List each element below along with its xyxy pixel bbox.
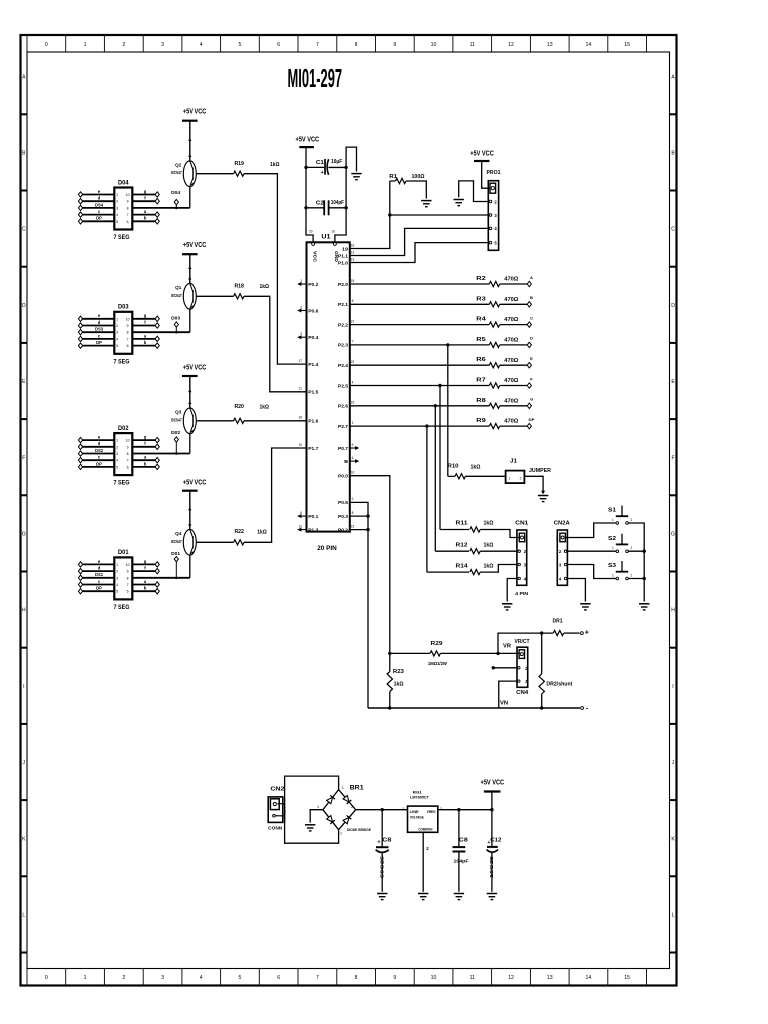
svg-text:BC547: BC547 bbox=[171, 293, 182, 298]
U1 pin VCC bbox=[312, 243, 315, 246]
transistor Q3 BC547 bbox=[183, 408, 196, 434]
svg-text:F: F bbox=[671, 455, 674, 461]
regulator RG1 LM7805CT bbox=[408, 806, 438, 832]
svg-text:104pF: 104pF bbox=[331, 200, 345, 206]
svg-text:1kΩ: 1kΩ bbox=[484, 563, 494, 569]
terminal - (VN) bbox=[581, 707, 584, 710]
svg-text:1: 1 bbox=[116, 317, 118, 321]
svg-text:1: 1 bbox=[403, 807, 405, 811]
svg-text:P2.1: P2.1 bbox=[338, 302, 348, 308]
svg-text:+5V VCC: +5V VCC bbox=[296, 137, 320, 144]
svg-text:2: 2 bbox=[520, 476, 522, 480]
CN1 pin 2 bbox=[518, 550, 520, 552]
ground (C8) bbox=[377, 893, 387, 895]
wire D03 pin 1 bbox=[81, 318, 115, 320]
wire base of Q3 to R20 bbox=[196, 420, 233, 422]
svg-text:D: D bbox=[530, 336, 533, 341]
wire D01 pin 6 bbox=[132, 590, 157, 592]
wire regulator common pin 2 bbox=[422, 832, 424, 892]
svg-text:2: 2 bbox=[116, 200, 118, 204]
svg-text:10: 10 bbox=[126, 193, 130, 197]
junction R1/pin19/PRO1.3 bbox=[388, 213, 391, 216]
svg-text:4: 4 bbox=[317, 805, 319, 809]
svg-text:8: 8 bbox=[127, 206, 129, 210]
wire J1 to ground bbox=[524, 476, 543, 491]
wire D01 pin 5 bbox=[81, 590, 115, 592]
ground (R1) bbox=[421, 200, 431, 202]
svg-text:d: d bbox=[98, 196, 101, 201]
terminal D03.b bbox=[155, 343, 159, 348]
svg-text:VN: VN bbox=[500, 700, 508, 706]
svg-text:D: D bbox=[22, 303, 26, 309]
svg-text:19: 19 bbox=[342, 246, 348, 252]
svg-text:R29: R29 bbox=[431, 641, 444, 647]
svg-text:G: G bbox=[671, 532, 675, 538]
svg-text:8: 8 bbox=[352, 511, 354, 515]
terminal F bbox=[527, 383, 531, 388]
wire U1.P2.7 to R9 bbox=[350, 425, 490, 427]
svg-text:12: 12 bbox=[508, 42, 514, 48]
wire R3 to terminal B bbox=[500, 303, 527, 305]
svg-text:104pF: 104pF bbox=[454, 859, 469, 865]
terminal D04.c bbox=[78, 212, 82, 217]
svg-text:100Ω: 100Ω bbox=[412, 174, 425, 180]
collector wire arrows bbox=[188, 389, 191, 392]
svg-text:470Ω: 470Ω bbox=[504, 398, 518, 404]
svg-text:RG1: RG1 bbox=[413, 789, 423, 794]
svg-text:+5V VCC: +5V VCC bbox=[481, 779, 505, 786]
wire U1.P2.0 to R2 bbox=[350, 283, 490, 285]
svg-text:P1.4: P1.4 bbox=[308, 362, 318, 368]
wire D04 pin 2 bbox=[81, 200, 115, 202]
wire D01 pin 4 bbox=[81, 584, 115, 586]
wire base of Q1 to R18 bbox=[196, 295, 233, 297]
svg-text:g: g bbox=[144, 559, 147, 564]
7-segment display D04 bbox=[114, 188, 132, 230]
svg-text:2: 2 bbox=[631, 546, 633, 550]
jumper J1 bbox=[506, 471, 525, 484]
resistor R10 1k bbox=[448, 475, 455, 477]
wire D04 pin 5 bbox=[81, 220, 115, 222]
wire U1.P2.1 to R3 bbox=[350, 303, 490, 305]
terminal D04.DS4 bbox=[78, 205, 82, 210]
svg-text:P0.3: P0.3 bbox=[338, 514, 348, 520]
svg-text:7: 7 bbox=[127, 213, 129, 217]
svg-text:P2.5: P2.5 bbox=[338, 383, 348, 389]
wire D02 pin 2 bbox=[81, 446, 115, 448]
svg-text:2: 2 bbox=[122, 42, 125, 48]
svg-text:B: B bbox=[530, 295, 533, 300]
junction C12 / VCC bbox=[490, 808, 493, 811]
terminal D02.b bbox=[155, 464, 159, 469]
svg-text:4: 4 bbox=[116, 459, 118, 463]
svg-text:8: 8 bbox=[352, 299, 354, 303]
svg-text:H: H bbox=[22, 608, 26, 614]
wire D04 pin 9 bbox=[132, 200, 157, 202]
wire D03 pin 3 bbox=[81, 331, 115, 333]
svg-text:VCC: VCC bbox=[312, 251, 317, 263]
wire R18 to U1 bbox=[244, 296, 307, 392]
terminal D01.d bbox=[78, 568, 82, 573]
svg-text:9: 9 bbox=[127, 445, 129, 449]
svg-text:5: 5 bbox=[116, 465, 118, 469]
collector wire arrows bbox=[188, 138, 191, 141]
svg-text:b: b bbox=[144, 586, 147, 591]
svg-text:15: 15 bbox=[351, 524, 355, 528]
svg-text:470Ω: 470Ω bbox=[504, 358, 518, 364]
svg-text:DP: DP bbox=[96, 340, 102, 345]
wire R1 to ground bbox=[406, 181, 426, 199]
svg-text:LINE: LINE bbox=[410, 810, 420, 814]
wire node D to R10 bbox=[447, 345, 449, 476]
svg-text:22: 22 bbox=[351, 360, 355, 364]
wire U1.P1.0 to PRO1.5 bbox=[350, 243, 489, 263]
wire R14 to CN1.3 bbox=[480, 565, 517, 573]
wire DR1 to + terminal bbox=[564, 632, 580, 634]
switch S3 bbox=[621, 561, 623, 572]
svg-text:1kΩ: 1kΩ bbox=[270, 162, 280, 168]
wire U1.P0.0 down to R29 bbox=[350, 476, 390, 654]
wire R9 to terminal DP bbox=[500, 425, 527, 427]
wire U1.P0.5 down bbox=[350, 502, 368, 708]
wire node DP to R14 bbox=[426, 426, 428, 572]
svg-text:1: 1 bbox=[116, 563, 118, 567]
svg-text:COMMON: COMMON bbox=[418, 828, 432, 832]
svg-text:D02: D02 bbox=[118, 425, 129, 432]
svg-text:18: 18 bbox=[351, 279, 355, 283]
svg-text:10μF: 10μF bbox=[331, 159, 343, 165]
junction P0.3 bbox=[366, 514, 369, 517]
svg-text:CN1: CN1 bbox=[515, 520, 529, 526]
svg-text:1MΩ1/2W: 1MΩ1/2W bbox=[428, 661, 447, 667]
terminal D01.DP bbox=[78, 589, 82, 594]
terminal + (VR) bbox=[581, 632, 584, 635]
svg-text:I: I bbox=[672, 684, 673, 690]
wire bridge to ground bbox=[310, 810, 323, 823]
wire VN rail bbox=[368, 707, 580, 709]
svg-text:BC547: BC547 bbox=[171, 539, 182, 544]
CN4 pin 1 bbox=[519, 650, 524, 659]
wire D02 pin 4 bbox=[81, 459, 115, 461]
svg-text:DR1: DR1 bbox=[553, 619, 563, 625]
svg-text:Q3: Q3 bbox=[175, 410, 182, 415]
svg-text:R3: R3 bbox=[476, 296, 486, 302]
wire D01 pin 1 bbox=[81, 563, 115, 565]
svg-text:P2.2: P2.2 bbox=[338, 322, 348, 328]
svg-text:C8: C8 bbox=[459, 837, 468, 843]
svg-text:R2: R2 bbox=[476, 276, 486, 282]
svg-text:C12: C12 bbox=[490, 837, 501, 843]
resistor R18 1k bbox=[234, 294, 244, 299]
svg-text:g: g bbox=[144, 313, 147, 318]
wire emitter of Q4 to D01 bbox=[189, 555, 191, 578]
wire U1.P2.4 to R6 bbox=[350, 364, 490, 366]
wire S1 to ground trunk bbox=[628, 523, 644, 602]
svg-text:D01: D01 bbox=[118, 549, 129, 556]
junction F/R11 bbox=[438, 384, 441, 387]
svg-text:7: 7 bbox=[316, 975, 319, 981]
svg-text:13: 13 bbox=[351, 257, 355, 261]
resistor R19 1k bbox=[234, 171, 244, 176]
wire R29 to CN4.1 / VR node bbox=[440, 652, 519, 654]
wire U1.P2.2 to R4 bbox=[350, 324, 490, 326]
junction DR2/VN bbox=[540, 706, 543, 709]
svg-text:7: 7 bbox=[127, 583, 129, 587]
wire R8 to terminal G bbox=[500, 405, 527, 407]
terminal D02.DP bbox=[78, 464, 82, 469]
svg-text:6: 6 bbox=[127, 590, 129, 594]
svg-text:1kΩ: 1kΩ bbox=[471, 464, 481, 470]
svg-text:470Ω: 470Ω bbox=[504, 317, 518, 323]
svg-text:A: A bbox=[530, 275, 533, 280]
svg-text:12: 12 bbox=[298, 524, 302, 528]
resistor R1 100ohm bbox=[389, 181, 391, 215]
terminal D02.d bbox=[78, 444, 82, 449]
svg-text:g: g bbox=[144, 435, 147, 440]
bridge diode bbox=[326, 795, 335, 804]
wire GND side of caps bbox=[335, 147, 357, 243]
svg-text:15: 15 bbox=[624, 42, 630, 48]
wire CN2A.2 to S2 bbox=[567, 550, 616, 552]
svg-text:2: 2 bbox=[631, 518, 633, 522]
svg-text:3: 3 bbox=[161, 42, 164, 48]
diode bridge BR1 bbox=[323, 790, 356, 830]
svg-text:23: 23 bbox=[351, 401, 355, 405]
svg-text:4: 4 bbox=[116, 583, 118, 587]
svg-text:H: H bbox=[671, 608, 675, 614]
terminal D04.e bbox=[78, 192, 82, 197]
bridge diode bbox=[343, 815, 352, 824]
svg-text:2: 2 bbox=[116, 324, 118, 328]
ground (PRO1.2) bbox=[454, 199, 464, 201]
wire bridge + to regulator bbox=[356, 809, 408, 811]
svg-text:11: 11 bbox=[470, 975, 475, 981]
transistor Q4 BC547 bbox=[183, 529, 196, 555]
svg-text:DP: DP bbox=[529, 417, 535, 422]
connector PRO1 bbox=[488, 181, 498, 251]
resistor R8 470ohm bbox=[489, 403, 499, 408]
wire S3 to trunk bbox=[628, 578, 644, 580]
transistor Q1 BC547 bbox=[183, 283, 196, 309]
svg-text:1: 1 bbox=[612, 518, 614, 522]
svg-text:+5V VCC: +5V VCC bbox=[183, 242, 207, 249]
wire D01 pin 10 bbox=[132, 563, 157, 565]
wire base of Q2 to R19 bbox=[196, 173, 233, 175]
node D04 bbox=[175, 205, 177, 208]
ground (bridge) bbox=[305, 824, 315, 826]
wire base of Q4 to R22 bbox=[196, 541, 233, 543]
wire R10 to J1 bbox=[465, 475, 505, 477]
bridge diode bbox=[343, 795, 352, 804]
wire D03 pin 5 bbox=[81, 345, 115, 347]
junction C1-GND bbox=[344, 166, 347, 169]
wire D04 pin 10 bbox=[132, 194, 157, 196]
svg-text:P1.5: P1.5 bbox=[308, 390, 318, 396]
wire D02 pin 5 bbox=[81, 466, 115, 468]
ground (regulator) bbox=[418, 893, 428, 895]
svg-text:P0.1: P0.1 bbox=[308, 514, 318, 520]
svg-text:13: 13 bbox=[547, 975, 553, 981]
resistor R29 1M 1/2W bbox=[390, 652, 430, 654]
wire D02 pin 9 bbox=[132, 446, 157, 448]
7-segment display D01 bbox=[114, 557, 132, 599]
terminal D04.d bbox=[78, 199, 82, 204]
junction R23/VN bbox=[388, 706, 391, 709]
svg-text:5: 5 bbox=[116, 220, 118, 224]
junction P0.2 bbox=[366, 528, 369, 531]
svg-text:1: 1 bbox=[84, 975, 87, 981]
PRO1 pin 5 bbox=[489, 241, 492, 244]
svg-text:5: 5 bbox=[239, 42, 242, 48]
wire S2 to trunk bbox=[628, 550, 644, 552]
switch S1 bbox=[621, 506, 623, 517]
svg-text:+5V VCC: +5V VCC bbox=[183, 108, 207, 115]
svg-text:D02: D02 bbox=[171, 430, 181, 435]
wire R20 to U1 bbox=[244, 420, 307, 422]
svg-text:C: C bbox=[530, 315, 533, 320]
svg-text:D04: D04 bbox=[171, 190, 181, 195]
svg-text:10: 10 bbox=[431, 975, 437, 981]
svg-text:R1: R1 bbox=[389, 174, 398, 180]
PRO1 pin 3 bbox=[489, 214, 492, 217]
wire C6 to ground bbox=[458, 853, 460, 892]
svg-text:DP: DP bbox=[96, 586, 102, 591]
7-segment display D03 bbox=[114, 312, 132, 354]
svg-text:F: F bbox=[22, 455, 25, 461]
wire R7 to terminal F bbox=[500, 385, 527, 387]
svg-text:1kΩ: 1kΩ bbox=[484, 521, 494, 527]
svg-text:10: 10 bbox=[431, 42, 437, 48]
resistor DR1 bbox=[553, 631, 563, 636]
svg-text:JUMPER: JUMPER bbox=[529, 468, 552, 474]
svg-text:4: 4 bbox=[200, 975, 203, 981]
CN2A pin 3 bbox=[564, 563, 566, 565]
svg-text:0: 0 bbox=[45, 42, 48, 48]
svg-text:4: 4 bbox=[352, 380, 354, 384]
terminal G bbox=[527, 403, 531, 408]
svg-text:L: L bbox=[672, 913, 675, 919]
ground (CN1) bbox=[502, 603, 512, 605]
collector wire arrows bbox=[188, 507, 191, 510]
svg-text:5: 5 bbox=[239, 975, 242, 981]
node D03 bbox=[175, 327, 177, 332]
svg-text:G: G bbox=[22, 532, 26, 538]
wire CN2A.1 to S1 bbox=[565, 523, 616, 538]
terminal D02.g bbox=[155, 437, 159, 442]
wire emitter of Q2 to D04 bbox=[189, 187, 191, 208]
svg-text:1kΩ: 1kΩ bbox=[259, 405, 269, 411]
CN1 pin 1 bbox=[519, 533, 524, 542]
CN2A pin 4 bbox=[564, 577, 566, 579]
svg-text:G: G bbox=[530, 397, 533, 402]
terminal D02.e bbox=[78, 437, 82, 442]
terminal DP bbox=[527, 423, 531, 428]
svg-text:+: + bbox=[585, 628, 590, 637]
svg-text:R23: R23 bbox=[393, 669, 405, 675]
resistor R7 470ohm bbox=[489, 383, 499, 388]
wire U1.P2.6 to R8 bbox=[350, 405, 490, 407]
svg-text:R4: R4 bbox=[476, 317, 486, 323]
resistor R3 470ohm bbox=[489, 302, 499, 307]
svg-text:P2.7: P2.7 bbox=[338, 424, 348, 430]
switch S2 bbox=[621, 534, 623, 545]
junction DR1 rail / DR2 bbox=[540, 631, 543, 634]
terminal B bbox=[527, 302, 531, 307]
svg-text:7: 7 bbox=[316, 42, 319, 48]
svg-text:5: 5 bbox=[116, 590, 118, 594]
wire CN2.2 stub bbox=[275, 815, 284, 817]
svg-text:9: 9 bbox=[127, 570, 129, 574]
connector CN2A bbox=[557, 530, 567, 585]
svg-text:S3: S3 bbox=[608, 563, 616, 569]
svg-text:10: 10 bbox=[126, 317, 130, 321]
svg-text:P1.7: P1.7 bbox=[308, 446, 318, 452]
svg-text:1: 1 bbox=[116, 193, 118, 197]
connector CN2 bbox=[268, 797, 283, 823]
bridge diode bbox=[326, 815, 335, 824]
svg-text:+5V VCC: +5V VCC bbox=[470, 150, 494, 157]
wire D03 pin 7 bbox=[132, 338, 157, 340]
svg-text:P0.2: P0.2 bbox=[308, 282, 318, 288]
svg-text:C2: C2 bbox=[316, 200, 324, 206]
svg-text:CN2A: CN2A bbox=[554, 520, 571, 526]
resistor R22 1k bbox=[234, 540, 244, 545]
svg-text:R12: R12 bbox=[456, 542, 468, 548]
svg-text:P1.6: P1.6 bbox=[308, 419, 318, 425]
svg-text:P1.3: P1.3 bbox=[308, 527, 318, 533]
svg-text:S2: S2 bbox=[608, 536, 616, 542]
svg-text:C1: C1 bbox=[316, 160, 324, 166]
svg-text:10: 10 bbox=[298, 443, 302, 447]
PRO1 pin 1 bbox=[490, 183, 496, 193]
svg-text:0: 0 bbox=[45, 975, 48, 981]
resistor R6 470ohm bbox=[489, 363, 499, 368]
wire R12 to CN1.2 bbox=[480, 550, 517, 552]
svg-text:R20: R20 bbox=[234, 404, 244, 410]
svg-text:4: 4 bbox=[116, 213, 118, 217]
ground (C6) bbox=[454, 893, 464, 895]
svg-text:5: 5 bbox=[116, 344, 118, 348]
capacitor C12 electrolytic bbox=[491, 810, 493, 847]
svg-text:9: 9 bbox=[344, 459, 348, 465]
wire U1.P2.3 to R5 bbox=[350, 344, 490, 346]
svg-text:CN2: CN2 bbox=[270, 786, 284, 792]
wire CN1.4 to ground bbox=[507, 579, 517, 602]
svg-text:DR2/shunt: DR2/shunt bbox=[546, 681, 572, 687]
svg-text:14: 14 bbox=[586, 42, 592, 48]
svg-text:R22: R22 bbox=[234, 529, 244, 535]
wire C8 to ground bbox=[381, 853, 383, 892]
terminal D01.a bbox=[155, 582, 159, 587]
wire R11 to CN1.1 bbox=[480, 530, 519, 538]
svg-text:BR1: BR1 bbox=[350, 784, 364, 791]
svg-text:11: 11 bbox=[470, 42, 475, 48]
terminal D bbox=[527, 342, 531, 347]
svg-text:10: 10 bbox=[126, 439, 130, 443]
svg-text:+5V VCC: +5V VCC bbox=[183, 480, 207, 487]
CN4 pin 3 bbox=[518, 680, 520, 682]
junction C1-VCC bbox=[304, 166, 307, 169]
svg-text:6: 6 bbox=[277, 42, 280, 48]
wire D04 pin 7 bbox=[132, 214, 157, 216]
wire D02 pin 3 bbox=[81, 453, 115, 455]
svg-text:10: 10 bbox=[331, 229, 335, 233]
wire R4 to terminal C bbox=[500, 324, 527, 326]
svg-text:11: 11 bbox=[299, 387, 303, 391]
svg-text:10: 10 bbox=[126, 563, 130, 567]
wire PRO1.3 net bbox=[390, 214, 489, 216]
svg-text:C: C bbox=[671, 227, 675, 233]
